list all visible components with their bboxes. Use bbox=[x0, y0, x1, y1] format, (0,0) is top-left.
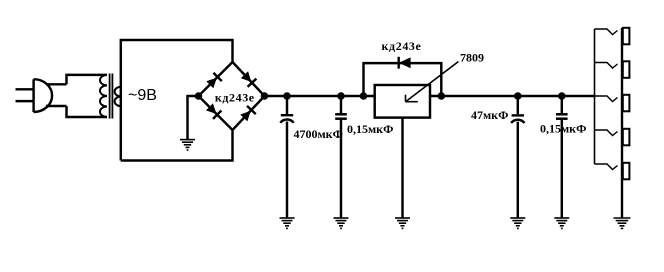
diode VD4 bottom-right bbox=[240, 106, 256, 122]
ground bridge bbox=[180, 140, 195, 150]
pin 2 bbox=[623, 61, 630, 78]
transformer T1 core bbox=[110, 74, 113, 119]
transformer T1 primary coil bbox=[100, 75, 107, 117]
svg-text:0,15мкФ: 0,15мкФ bbox=[540, 122, 586, 136]
svg-text:кд243е: кд243е bbox=[215, 90, 255, 104]
svg-text:47мкФ: 47мкФ bbox=[471, 108, 508, 122]
wire regulator ground lead bbox=[401, 118, 403, 218]
pin 4 bbox=[623, 129, 630, 146]
ground C1 bbox=[280, 218, 295, 228]
svg-text:~9В: ~9В bbox=[128, 87, 157, 104]
svg-text:4700мкФ: 4700мкФ bbox=[294, 127, 343, 141]
capacitor C3 47uF bbox=[511, 96, 524, 218]
diode VD1 top-left bbox=[206, 73, 222, 89]
node C1 tap bbox=[283, 92, 291, 100]
transformer T1 primary winding frame bbox=[67, 75, 108, 117]
ground regulator bbox=[395, 218, 410, 228]
node bypass right bbox=[438, 92, 446, 100]
contact 1 chevron bbox=[595, 29, 618, 35]
capacitor C2 0.15uF bbox=[335, 96, 347, 218]
svg-text:0,15мкФ: 0,15мкФ bbox=[347, 122, 393, 136]
ground C2 bbox=[334, 218, 349, 228]
bridge rectifier diamond bbox=[199, 62, 265, 130]
node C2 tap bbox=[337, 92, 345, 100]
wire bridge left corner to ground bbox=[188, 96, 199, 139]
contact 3 chevron bbox=[595, 96, 618, 102]
contact 2 chevron bbox=[595, 63, 618, 69]
regulator U1 7809 box bbox=[375, 85, 430, 118]
node bypass left bbox=[360, 92, 368, 100]
pin 1 bbox=[623, 28, 630, 45]
contact 4 chevron bbox=[595, 130, 618, 136]
svg-text:7809: 7809 bbox=[460, 51, 484, 65]
capacitor C4 0.15uF bbox=[556, 96, 568, 218]
wire secondary to bridge (loop) bbox=[121, 40, 233, 161]
annotation arrow to regulator bbox=[406, 62, 459, 102]
wire plug to transformer primary bbox=[46, 84, 67, 106]
ground connector bbox=[614, 218, 631, 228]
node C4 tap bbox=[558, 92, 566, 100]
transformer T1 secondary coil bbox=[115, 87, 121, 107]
diode VD2 top-right bbox=[241, 71, 257, 87]
svg-text:кд243е: кд243е bbox=[382, 39, 422, 53]
diode VD3 bottom-left bbox=[206, 103, 222, 119]
node C3 tap bbox=[514, 92, 522, 100]
capacitor C1 4700uF bbox=[280, 96, 293, 218]
node bridge right corner (+ output) bbox=[261, 92, 269, 100]
connector XS1 left bus bbox=[594, 29, 596, 164]
ground C3 bbox=[510, 218, 525, 228]
connector XS1 pin strip line bbox=[621, 28, 623, 218]
ground C4 bbox=[554, 218, 569, 228]
pin 5 bbox=[623, 163, 630, 180]
contact 5 chevron bbox=[595, 164, 618, 170]
diode VD5 bypass kd243e bbox=[399, 57, 411, 69]
pin 3 bbox=[623, 95, 630, 112]
wire bypass loop bbox=[364, 63, 442, 96]
mains plug X1 bbox=[16, 79, 53, 112]
wire main bus bridge to regulator bbox=[265, 95, 375, 97]
wire regulator output bus bbox=[430, 95, 596, 97]
node bridge left corner bbox=[195, 92, 203, 100]
